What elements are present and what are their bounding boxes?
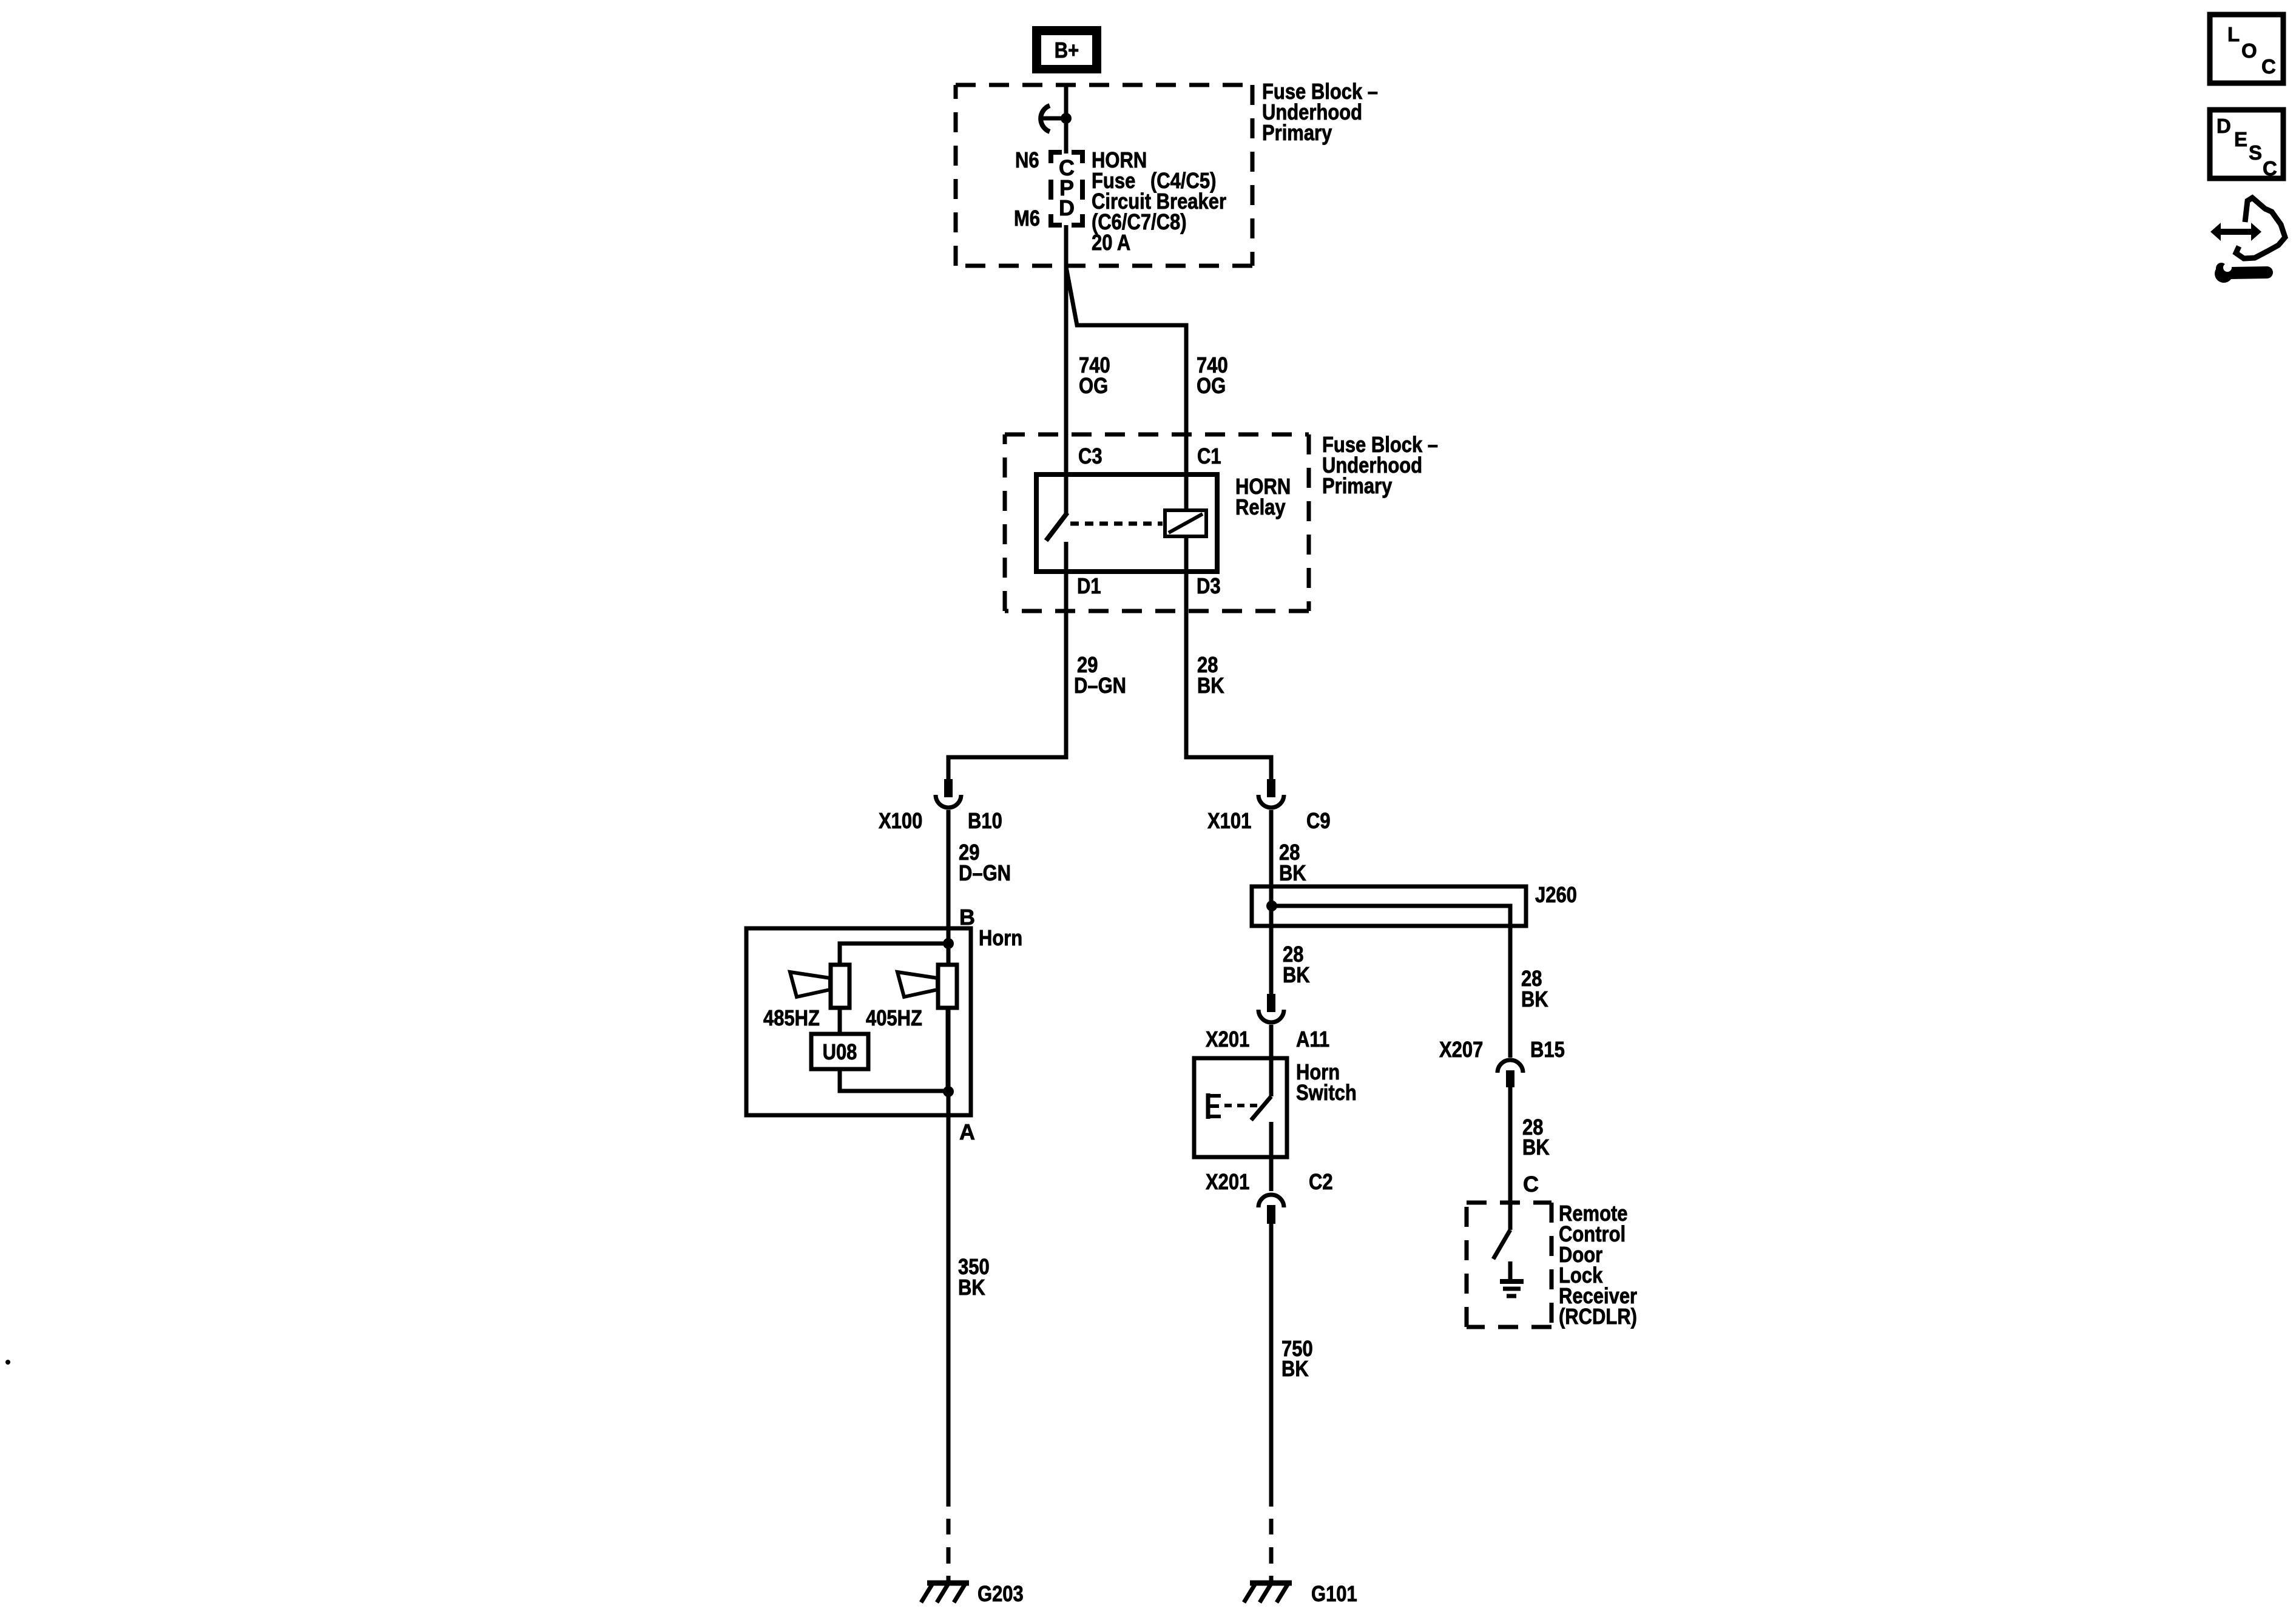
svg-text:B: B (959, 905, 975, 930)
wire X101 down through J260 to X201 (1269, 810, 1274, 994)
relay actuating dashed link (1070, 522, 1163, 526)
svg-text:E: E (2234, 128, 2247, 150)
connector X201 C2 female arc (flipped) (1258, 1195, 1284, 1207)
svg-text:D–GN: D–GN (1074, 673, 1126, 698)
RCDLR switch blade (1493, 1230, 1510, 1259)
relay switch contact blade (1046, 513, 1067, 541)
svg-text:X201: X201 (1206, 1027, 1249, 1052)
svg-text:D: D (1059, 195, 1075, 220)
wire D3 down to X101 jog (1186, 536, 1271, 779)
label 350 BK (958, 1254, 990, 1300)
svg-text:485HZ: 485HZ (763, 1005, 820, 1030)
svg-text:M6: M6 (1014, 206, 1040, 231)
svg-text:O: O (2241, 39, 2257, 62)
wire A11 to horn switch (1269, 1025, 1274, 1058)
svg-text:G203: G203 (977, 1581, 1024, 1606)
relay coil diagonal (1169, 514, 1203, 533)
svg-text:C1: C1 (1197, 444, 1221, 468)
label 28 BK (right above X207) (1521, 966, 1548, 1011)
svg-text:BK: BK (1281, 1356, 1309, 1381)
svg-text:X207: X207 (1439, 1037, 1483, 1062)
svg-text:Switch: Switch (1296, 1080, 1357, 1105)
wire U08 to bottom junction (840, 1069, 948, 1091)
bus tap curl symbol (1041, 106, 1050, 132)
svg-text:J260: J260 (1535, 882, 1577, 907)
svg-text:B15: B15 (1530, 1037, 1565, 1062)
wire horn B to A through box (947, 965, 951, 1507)
horn switch wire stub (top) (1269, 1058, 1274, 1096)
horn 485HZ trumpet (790, 972, 830, 997)
label HORN Relay (1235, 474, 1291, 519)
label 28 BK (above J260) (1279, 840, 1306, 885)
bus tap tick wire (1043, 116, 1066, 121)
wire horn switch to X201 C2 (1269, 1157, 1274, 1191)
label HORN Fuse (C4/C5) Circuit Breaker (C6/C7/C8) 20 A (1092, 147, 1226, 255)
svg-text:BK: BK (1522, 1135, 1550, 1160)
svg-text:C: C (2261, 55, 2276, 78)
svg-text:C3: C3 (1078, 444, 1102, 468)
label 740 OG (right) (1197, 353, 1228, 398)
label 28 BK (upper) (1197, 652, 1224, 698)
wire B+ down into fuse block (1064, 85, 1069, 154)
label Horn Switch (1296, 1059, 1357, 1105)
RCDLR dashed box (1467, 1203, 1551, 1327)
wire D1 down to X100 jog (948, 573, 1066, 779)
stray scan dot (5, 1360, 10, 1365)
label Fuse Block - Underhood Primary (relay) (1322, 432, 1438, 498)
J260 internal bus bar (1272, 906, 1510, 926)
svg-text:C: C (1523, 1172, 1539, 1197)
RCDLR internal ground symbol (1500, 1281, 1524, 1296)
connector X101 terminal C9 (male pin) (1267, 779, 1275, 797)
wire C2 down to ground G101 (1269, 1224, 1274, 1507)
svg-text:L: L (2227, 23, 2240, 46)
horn 485HZ coil element (831, 965, 849, 1008)
ground G101 symbol (1244, 1583, 1292, 1602)
LOC legend box (2210, 15, 2283, 83)
fuse block underhood primary (relay) dashed box (1005, 434, 1309, 611)
svg-text:S: S (2249, 141, 2262, 164)
svg-text:N6: N6 (1015, 147, 1039, 172)
horn internal top wire (840, 944, 948, 965)
label 29 D-GN (upper) (1074, 652, 1126, 698)
horn assembly box (746, 928, 971, 1115)
U08 box (811, 1034, 868, 1069)
junction node on B+ feed (1061, 113, 1072, 124)
svg-text:D: D (2217, 115, 2231, 137)
label Remote Control Door Lock Receiver (RCDLR) (1559, 1201, 1637, 1329)
horn switch blade (1251, 1096, 1271, 1120)
LOC letters (2227, 23, 2276, 78)
svg-text:BK: BK (1521, 987, 1548, 1011)
connector X207 female arc (flipped) (1497, 1060, 1523, 1073)
horn switch dashed link (1224, 1104, 1262, 1107)
svg-text:B+: B+ (1055, 38, 1079, 62)
svg-text:405HZ: 405HZ (866, 1005, 922, 1030)
svg-text:Horn: Horn (979, 925, 1022, 950)
relay coil box (1165, 510, 1206, 536)
connector X201 terminal C2 (male pin) (1267, 1205, 1275, 1224)
horn 405HZ coil element (938, 965, 957, 1008)
svg-text:BK: BK (958, 1275, 985, 1300)
DESC legend box (2210, 110, 2283, 178)
dashed wire to ground G203 (947, 1519, 951, 1584)
label 750 BK (1281, 1336, 1313, 1381)
wire B15 down into RCDLR (1508, 1087, 1513, 1230)
wire 405HZ down to bottom junction (946, 1008, 950, 1091)
horn switch lower stub (1269, 1122, 1274, 1157)
svg-text:G101: G101 (1311, 1581, 1357, 1606)
svg-text:(RCDLR): (RCDLR) (1559, 1304, 1637, 1329)
svg-text:Primary: Primary (1262, 120, 1332, 145)
svg-text:U08: U08 (823, 1039, 857, 1064)
wire 485HZ to U08 (838, 1008, 842, 1034)
svg-text:X201: X201 (1206, 1169, 1249, 1194)
wire J260 right leg down to X207 (1508, 926, 1513, 1058)
svg-text:X101: X101 (1207, 808, 1251, 833)
horn internal top junction dot (943, 938, 954, 949)
svg-text:BK: BK (1197, 673, 1224, 698)
horn switch box (1194, 1058, 1287, 1157)
relay switch lower stub (1064, 542, 1069, 573)
connector X100 female arc (936, 795, 961, 808)
label 740 OG (left) (1079, 353, 1110, 398)
connector X201 A11 female arc (1258, 1010, 1284, 1022)
connector X100 terminal B10 (male pin) (944, 779, 953, 797)
fuse pin letters C P D (1059, 155, 1075, 220)
horn internal bottom junction dot (943, 1086, 954, 1097)
svg-text:Primary: Primary (1322, 473, 1392, 498)
label 29 D-GN (lower) (959, 840, 1011, 885)
fuse / circuit breaker dashed bracket (pins C P D) (1051, 152, 1082, 225)
svg-text:BK: BK (1283, 962, 1310, 987)
B+ power symbol (1032, 26, 1101, 73)
label 28 BK (below J260 left) (1283, 942, 1310, 987)
svg-text:C: C (2263, 157, 2277, 180)
dashed wire to ground G101 (1269, 1519, 1274, 1584)
svg-text:OG: OG (1079, 373, 1108, 398)
label Fuse Block - Underhood Primary (upper) (1262, 79, 1378, 145)
J260 junction dot (1266, 900, 1277, 911)
svg-text:C9: C9 (1306, 808, 1331, 833)
RCDLR internal ground stub (1508, 1261, 1513, 1280)
wire branch diagonal to C1 leg (1066, 267, 1186, 511)
connector X101 female arc (1258, 795, 1284, 808)
svg-text:D1: D1 (1077, 573, 1101, 598)
svg-text:D–GN: D–GN (959, 860, 1011, 885)
label 28 BK (below X207) (1522, 1115, 1550, 1160)
splice pack J260 box (1252, 886, 1526, 926)
fuse block underhood primary (upper) dashed box (956, 85, 1252, 266)
horn switch E contact symbol (1206, 1093, 1221, 1119)
svg-text:Relay: Relay (1235, 495, 1286, 519)
svg-text:20 A: 20 A (1092, 230, 1130, 255)
svg-text:A: A (959, 1119, 975, 1144)
horn relay box (1036, 474, 1217, 572)
horn 405HZ trumpet (897, 972, 937, 997)
svg-text:BK: BK (1279, 860, 1306, 885)
connector X201 terminal A11 (male pin) (1267, 994, 1275, 1012)
connector X207 terminal B15 (male pin) (1506, 1070, 1514, 1087)
svg-text:B10: B10 (968, 808, 1002, 833)
wire X100 down to horn (947, 810, 951, 965)
service icon part outline (2236, 198, 2285, 258)
service icon wrench (2215, 260, 2267, 283)
svg-text:D3: D3 (1197, 573, 1221, 598)
svg-text:C2: C2 (1309, 1169, 1333, 1194)
svg-text:A11: A11 (1296, 1027, 1329, 1052)
svg-text:OG: OG (1197, 373, 1226, 398)
DESC letters (2217, 115, 2277, 180)
svg-text:X100: X100 (879, 808, 922, 833)
ground G203 symbol (921, 1583, 969, 1602)
service icon double arrow (2210, 223, 2261, 241)
wire fuse output down to relay C3 (1064, 225, 1069, 513)
